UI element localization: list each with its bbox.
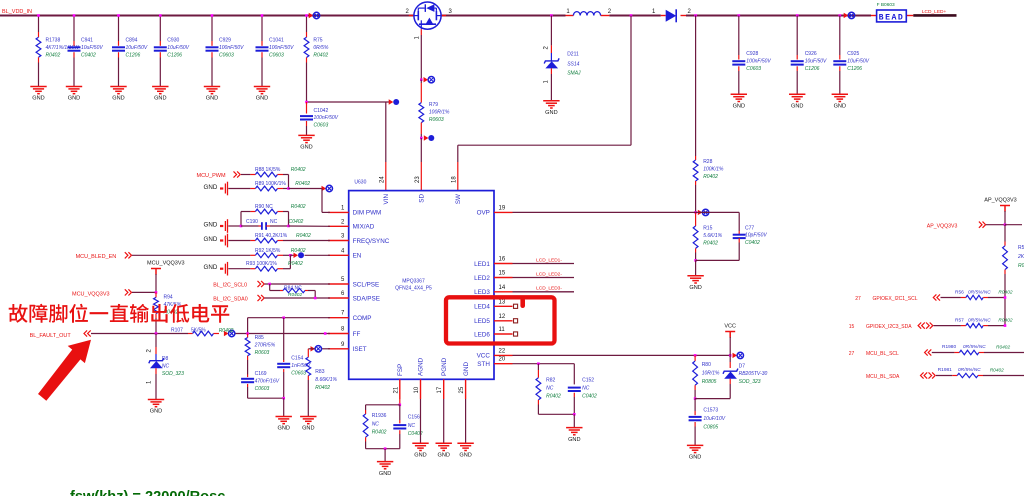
svg-text:GND: GND: [154, 96, 166, 102]
svg-text:R88 1K/5%: R88 1K/5%: [255, 167, 281, 173]
svg-text:MCU_VQQ3V3: MCU_VQQ3V3: [147, 261, 185, 267]
svg-text:GND: GND: [204, 236, 218, 243]
svg-text:100nF/50V: 100nF/50V: [219, 45, 244, 51]
svg-text:C1041: C1041: [269, 38, 284, 44]
svg-text:GND: GND: [206, 96, 218, 102]
svg-text:R0402: R0402: [990, 367, 1004, 373]
svg-text:270R/5%: 270R/5%: [254, 343, 276, 349]
svg-text:11: 11: [499, 327, 506, 333]
svg-text:R0: R0: [1018, 263, 1024, 269]
svg-text:LCD_LED+: LCD_LED+: [922, 9, 947, 15]
svg-text:R92 1K/5%: R92 1K/5%: [255, 248, 281, 254]
svg-text:C894: C894: [126, 38, 138, 44]
svg-text:R0402: R0402: [372, 430, 387, 436]
svg-text:D211: D211: [567, 51, 579, 57]
svg-text:R0402: R0402: [291, 204, 306, 210]
svg-text:20: 20: [499, 357, 506, 363]
svg-text:R1981: R1981: [938, 367, 952, 373]
svg-text:OVP: OVP: [477, 210, 490, 217]
svg-text:LCD_LED2-: LCD_LED2-: [536, 271, 562, 277]
svg-text:16: 16: [499, 257, 506, 263]
svg-text:10uF/50V: 10uF/50V: [126, 45, 148, 51]
svg-text:D8: D8: [162, 356, 169, 362]
svg-text:C928: C928: [746, 51, 758, 57]
svg-text:R5: R5: [1018, 245, 1024, 251]
svg-text:LED1: LED1: [474, 261, 490, 268]
svg-text:R0402: R0402: [296, 233, 311, 239]
svg-text:R84 NC: R84 NC: [284, 286, 302, 292]
svg-text:GND: GND: [300, 145, 312, 151]
svg-text:FREQ/SYNC: FREQ/SYNC: [353, 238, 390, 245]
svg-text:R0402: R0402: [998, 289, 1012, 295]
svg-text:C156: C156: [408, 415, 420, 421]
svg-text:C0805: C0805: [703, 424, 718, 430]
svg-text:R0402: R0402: [315, 385, 330, 391]
svg-text:VCC: VCC: [477, 353, 491, 360]
svg-text:C0402: C0402: [289, 219, 304, 225]
svg-text:10pF/50V: 10pF/50V: [745, 233, 767, 239]
svg-text:R0402: R0402: [288, 292, 302, 298]
svg-text:GPIOEX_I2C1_SCL: GPIOEX_I2C1_SCL: [873, 296, 918, 302]
svg-text:R83: R83: [315, 369, 324, 375]
svg-text:R0402: R0402: [46, 53, 61, 59]
svg-text:0R/5%/NC: 0R/5%/NC: [968, 317, 991, 323]
svg-text:NC: NC: [408, 423, 416, 429]
svg-text:C1042: C1042: [314, 108, 329, 114]
svg-text:10uF/50V: 10uF/50V: [167, 45, 189, 51]
svg-text:C77: C77: [745, 226, 754, 232]
svg-text:10uF/50V: 10uF/50V: [805, 59, 827, 65]
svg-text:GND: GND: [437, 453, 449, 459]
svg-text:R0402: R0402: [219, 328, 234, 334]
svg-text:GND: GND: [302, 426, 314, 432]
svg-text:SOD_323: SOD_323: [739, 379, 761, 385]
svg-text:C190: C190: [246, 219, 258, 225]
svg-text:R1738: R1738: [46, 38, 61, 44]
svg-text:10: 10: [414, 386, 420, 393]
svg-text:R0402: R0402: [295, 181, 310, 187]
svg-text:GND: GND: [379, 471, 391, 477]
svg-text:BEAD: BEAD: [879, 14, 905, 23]
svg-text:LCD_LED3-: LCD_LED3-: [536, 286, 562, 292]
svg-text:C1206: C1206: [126, 53, 141, 59]
svg-text:GND: GND: [459, 453, 471, 459]
svg-text:27: 27: [849, 351, 855, 357]
svg-text:PGND: PGND: [441, 357, 448, 376]
svg-text:100nF/50V: 100nF/50V: [314, 115, 339, 121]
svg-text:C926: C926: [805, 51, 817, 57]
svg-text:0R/5%: 0R/5%: [313, 45, 329, 51]
svg-text:FF: FF: [353, 331, 361, 338]
svg-text:C152: C152: [582, 378, 594, 384]
svg-text:13: 13: [499, 299, 506, 305]
svg-text:R28: R28: [703, 159, 712, 165]
svg-text:GND: GND: [112, 96, 124, 102]
svg-text:SDA/PSE: SDA/PSE: [353, 295, 380, 302]
svg-text:R82: R82: [546, 378, 555, 384]
svg-text:GND: GND: [689, 285, 701, 291]
svg-text:BL_FAULT_OUT: BL_FAULT_OUT: [30, 333, 72, 339]
svg-text:MPQ3367: MPQ3367: [402, 279, 425, 285]
svg-text:R1980: R1980: [942, 344, 956, 350]
svg-text:R0402: R0402: [291, 248, 306, 254]
svg-text:LED2: LED2: [474, 275, 490, 282]
svg-text:5.6K/1%: 5.6K/1%: [703, 233, 722, 239]
svg-text:GPIOEX_I2C3_SDA: GPIOEX_I2C3_SDA: [866, 324, 912, 330]
svg-text:NC: NC: [546, 386, 554, 392]
svg-text:R0402: R0402: [313, 53, 328, 59]
svg-text:24: 24: [379, 176, 385, 183]
svg-text:0R/5%/NC: 0R/5%/NC: [963, 344, 986, 350]
svg-text:100K/1%: 100K/1%: [703, 167, 724, 173]
svg-text:18: 18: [451, 176, 457, 183]
svg-text:R0402: R0402: [291, 167, 306, 173]
svg-text:BL_VDD_IN: BL_VDD_IN: [2, 9, 32, 15]
svg-text:10uF/50V: 10uF/50V: [847, 59, 869, 65]
svg-text:C0603: C0603: [314, 122, 329, 128]
svg-text:R75: R75: [313, 38, 322, 44]
svg-text:12: 12: [499, 314, 506, 320]
svg-text:R1936: R1936: [372, 413, 387, 419]
svg-text:DIM PWM: DIM PWM: [353, 210, 382, 217]
svg-text:GND: GND: [204, 222, 218, 229]
svg-text:19: 19: [499, 205, 506, 211]
svg-text:R0603: R0603: [255, 350, 270, 356]
svg-text:GND: GND: [204, 264, 218, 271]
svg-text:21: 21: [393, 386, 399, 393]
svg-text:R0402: R0402: [703, 241, 718, 247]
svg-text:GND: GND: [150, 409, 162, 415]
svg-text:10uF/50V: 10uF/50V: [81, 45, 103, 51]
svg-text:GND: GND: [204, 184, 218, 191]
svg-text:C0603: C0603: [269, 53, 284, 59]
svg-text:STH: STH: [477, 361, 490, 368]
svg-text:GND: GND: [68, 96, 80, 102]
svg-text:R0402: R0402: [288, 261, 303, 267]
svg-text:C0402: C0402: [745, 240, 760, 246]
svg-text:GND: GND: [568, 437, 580, 443]
svg-text:R0402: R0402: [703, 174, 718, 180]
svg-text:LCD_LED1-: LCD_LED1-: [536, 257, 562, 263]
svg-text:5K/5%: 5K/5%: [191, 328, 206, 334]
svg-text:R0402: R0402: [546, 394, 561, 400]
svg-text:GND: GND: [256, 96, 268, 102]
svg-text:C929: C929: [219, 38, 231, 44]
svg-text:F B0603: F B0603: [877, 2, 895, 8]
svg-text:R94: R94: [164, 295, 173, 301]
svg-text:GND: GND: [277, 426, 289, 432]
svg-text:GND: GND: [545, 110, 557, 116]
svg-text:C0603: C0603: [746, 66, 761, 72]
svg-text:LED4: LED4: [474, 304, 490, 311]
svg-text:C0402: C0402: [582, 394, 597, 400]
svg-text:U630: U630: [354, 180, 366, 186]
svg-text:NC: NC: [582, 386, 590, 392]
svg-text:0R/5%/NC: 0R/5%/NC: [968, 289, 991, 295]
svg-text:MCU_BL_SCL: MCU_BL_SCL: [866, 351, 899, 357]
svg-text:R80: R80: [702, 362, 711, 368]
svg-text:LED5: LED5: [474, 318, 490, 325]
svg-text:AP_VQQ3V3: AP_VQQ3V3: [927, 223, 958, 229]
svg-text:C930: C930: [167, 38, 179, 44]
svg-text:17: 17: [437, 386, 443, 393]
svg-text:C925: C925: [847, 51, 859, 57]
svg-text:SCL/PSE: SCL/PSE: [353, 281, 380, 288]
svg-text:25: 25: [459, 386, 465, 393]
svg-text:MIX/AD: MIX/AD: [353, 224, 375, 231]
svg-text:15: 15: [849, 324, 855, 330]
svg-text:C0603: C0603: [219, 53, 234, 59]
svg-text:BL_I2C_SCL0: BL_I2C_SCL0: [213, 282, 247, 288]
svg-text:VIN: VIN: [383, 194, 390, 205]
svg-text:R89 100K/1%: R89 100K/1%: [255, 181, 286, 187]
svg-text:NC: NC: [162, 364, 170, 370]
svg-text:R85: R85: [255, 335, 264, 341]
svg-text:GND: GND: [689, 455, 701, 461]
svg-text:SOD_323: SOD_323: [162, 371, 184, 377]
svg-text:C169: C169: [255, 371, 267, 377]
svg-text:SD: SD: [419, 194, 426, 203]
svg-text:10R/1%: 10R/1%: [702, 370, 720, 376]
svg-text:R0805: R0805: [702, 379, 717, 385]
svg-text:EN: EN: [353, 253, 362, 260]
svg-text:R91 40.2K/1%: R91 40.2K/1%: [255, 233, 288, 239]
svg-text:QFN24_4X4_P5: QFN24_4X4_P5: [395, 286, 432, 292]
svg-text:NC: NC: [270, 219, 278, 225]
svg-text:GND: GND: [834, 104, 846, 110]
svg-text:C0603: C0603: [255, 386, 270, 392]
svg-text:27: 27: [855, 296, 861, 302]
svg-text:LED3: LED3: [474, 289, 490, 296]
svg-text:SMAJ: SMAJ: [567, 71, 581, 77]
svg-text:C0402: C0402: [81, 53, 96, 59]
svg-text:GND: GND: [733, 104, 745, 110]
svg-text:ISET: ISET: [353, 346, 367, 353]
svg-text:MCU_BL_SDA: MCU_BL_SDA: [866, 374, 900, 380]
svg-text:AP_VQQ3V3: AP_VQQ3V3: [984, 198, 1016, 204]
svg-text:GND: GND: [791, 104, 803, 110]
svg-text:RB205TV-30: RB205TV-30: [739, 371, 768, 377]
svg-text:C154: C154: [291, 356, 303, 362]
svg-text:14: 14: [499, 285, 506, 291]
svg-text:fsw(khz) = 22000/Rosc: fsw(khz) = 22000/Rosc: [70, 489, 225, 496]
svg-text:C1206: C1206: [167, 53, 182, 59]
svg-text:100nF/50V: 100nF/50V: [746, 59, 771, 65]
svg-text:SW: SW: [455, 194, 462, 204]
svg-text:C0603: C0603: [291, 371, 306, 377]
svg-text:LED6: LED6: [474, 331, 490, 338]
svg-text:C1206: C1206: [847, 66, 862, 72]
svg-text:C941: C941: [81, 38, 93, 44]
svg-text:100R/1%: 100R/1%: [429, 110, 450, 116]
svg-text:R79: R79: [429, 102, 438, 108]
svg-text:MCU_PWM: MCU_PWM: [197, 173, 226, 179]
svg-text:2K: 2K: [1017, 254, 1024, 260]
svg-text:FSP: FSP: [397, 364, 404, 376]
svg-text:C1573: C1573: [703, 408, 718, 414]
svg-text:R0603: R0603: [429, 117, 444, 123]
svg-text:GND: GND: [414, 453, 426, 459]
svg-text:AGND: AGND: [418, 357, 425, 376]
svg-text:100nF/50V: 100nF/50V: [269, 45, 294, 51]
svg-text:BL_I2C_SDA0: BL_I2C_SDA0: [213, 297, 248, 303]
svg-text:MCU_BLED_EN: MCU_BLED_EN: [76, 254, 117, 260]
svg-text:R93 100K/1%: R93 100K/1%: [246, 261, 277, 267]
svg-text:R0402: R0402: [996, 344, 1010, 350]
svg-text:SS14: SS14: [567, 61, 579, 67]
svg-text:COMP: COMP: [353, 315, 372, 322]
svg-text:NC: NC: [372, 421, 380, 427]
svg-text:0R/5%/NC: 0R/5%/NC: [958, 367, 981, 373]
svg-text:10uF/10V: 10uF/10V: [703, 416, 725, 422]
svg-text:C1206: C1206: [805, 66, 820, 72]
svg-text:15: 15: [499, 271, 506, 277]
svg-text:22: 22: [499, 348, 506, 354]
svg-text:8.66K/1%: 8.66K/1%: [315, 377, 337, 383]
svg-text:R57: R57: [955, 317, 964, 323]
svg-text:R15: R15: [703, 226, 712, 232]
svg-text:R56: R56: [955, 289, 964, 295]
svg-text:VCC: VCC: [724, 324, 736, 330]
svg-text:MCU_VQQ3V3: MCU_VQQ3V3: [72, 292, 110, 298]
svg-text:470nF/16V: 470nF/16V: [255, 379, 280, 385]
svg-text:D7: D7: [739, 364, 746, 370]
svg-text:GND: GND: [463, 362, 470, 376]
svg-text:R107: R107: [171, 328, 183, 334]
svg-text:23: 23: [415, 176, 421, 183]
svg-text:R0402: R0402: [998, 317, 1012, 323]
svg-text:GND: GND: [32, 96, 44, 102]
svg-text:R90 NC: R90 NC: [255, 204, 273, 210]
